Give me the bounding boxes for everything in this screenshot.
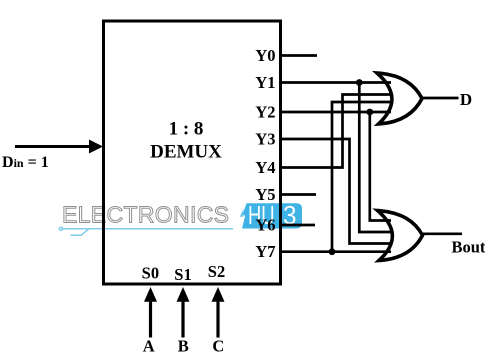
wire select B arrow xyxy=(181,301,184,338)
svg-text:Y6: Y6 xyxy=(255,216,275,235)
svg-text:Y5: Y5 xyxy=(255,185,275,204)
svg-text:Y4: Y4 xyxy=(255,158,275,177)
wire U2 output xyxy=(422,97,459,100)
svg-text:1 : 8: 1 : 8 xyxy=(169,119,204,140)
wire Y7 to OR gate U3 xyxy=(281,250,391,253)
wire U3 output xyxy=(423,232,463,235)
wire select A arrow xyxy=(149,301,152,338)
node junction on Y2 xyxy=(366,109,373,116)
node junction on Y1 xyxy=(356,79,363,86)
svg-text:Y0: Y0 xyxy=(255,46,275,65)
node junction on Y7 xyxy=(329,248,336,255)
svg-text:S1: S1 xyxy=(174,265,191,284)
wire select C arrow xyxy=(216,301,219,338)
wire Y2 branch to OR gate U3 xyxy=(370,112,391,221)
wire Y1 branch to OR gate U3 xyxy=(359,83,391,233)
svg-text:D: D xyxy=(460,90,472,109)
svg-text:Y7: Y7 xyxy=(255,242,275,261)
svg-text:C: C xyxy=(212,337,224,356)
wire Y3 to OR gate U3 xyxy=(281,139,391,244)
wire Y1 to OR gate U2 xyxy=(281,81,391,84)
svg-text:Bout: Bout xyxy=(452,238,485,257)
wire Y0 stub xyxy=(281,54,317,57)
demux U1 box xyxy=(104,21,281,284)
svg-text:Y1: Y1 xyxy=(255,73,275,92)
svg-text:Din = 1: Din = 1 xyxy=(2,154,49,171)
svg-text:A: A xyxy=(143,337,155,356)
wire Y5 stub xyxy=(281,193,316,196)
wire Din input arrow xyxy=(15,145,89,148)
wire Y4 to OR gate U2 xyxy=(281,95,391,168)
or-gate U2 (Difference) xyxy=(377,73,422,124)
svg-text:ELECTRONICS: ELECTRONICS xyxy=(62,202,229,228)
svg-text:DEMUX: DEMUX xyxy=(150,142,222,163)
svg-text:S2: S2 xyxy=(208,262,225,281)
wire Y6 stub xyxy=(281,224,315,227)
or-gate U3 (Borrow) xyxy=(378,211,423,261)
watermark flag tail xyxy=(240,209,244,217)
svg-text:S0: S0 xyxy=(142,264,159,283)
watermark underline trace xyxy=(59,227,233,235)
wire Y2 to OR gate U2 xyxy=(281,111,391,114)
wire Y7 branch to OR gate U2 xyxy=(332,102,391,252)
svg-text:Y2: Y2 xyxy=(255,103,275,122)
svg-text:B: B xyxy=(178,337,189,356)
svg-text:Y3: Y3 xyxy=(255,130,275,149)
watermark blue flag xyxy=(242,203,302,228)
